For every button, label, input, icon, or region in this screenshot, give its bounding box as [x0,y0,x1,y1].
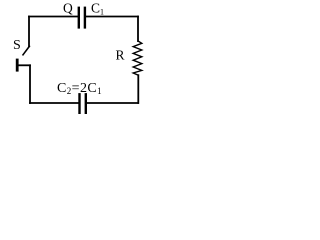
switch S blade (open) [23,46,29,55]
svg-text:C1: C1 [91,0,104,16]
wire right edge lower (resistor to bottom-right corner) [137,75,139,103]
switch S contact bar [16,60,19,70]
capacitor C1 [79,8,85,28]
capacitor C2 [80,94,86,113]
wire bottom-right corner to capacitor C2 right plate [87,102,138,104]
wire capacitor C2 left plate to bottom-left corner [30,102,79,104]
svg-text:Q: Q [63,0,73,15]
wire switch jog horizontal [18,64,31,66]
wire left edge lower (bottom-left corner up to switch jog) [29,65,31,103]
wire capacitor C1 right plate to top-right corner [86,16,138,18]
svg-text:C2=2C1: C2=2C1 [57,81,102,96]
resistor R [133,41,142,75]
svg-text:S: S [13,38,21,53]
svg-text:R: R [116,48,125,63]
wire top-left to capacitor C1 left plate [29,16,78,18]
wire right edge upper (top-right corner down to resistor) [137,17,139,42]
wire left edge upper (top-left corner down to switch) [28,17,30,47]
